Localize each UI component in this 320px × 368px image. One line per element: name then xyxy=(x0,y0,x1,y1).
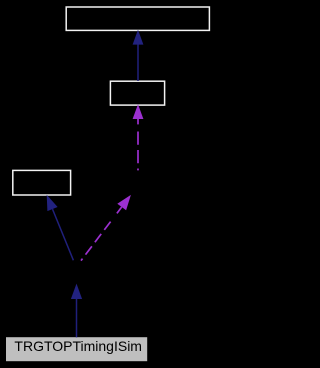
usage arrow D: junction up-right toward middle (dashed purple) xyxy=(81,195,131,261)
node box bottom TRGTOPTimingISim (current class, grey fill) xyxy=(6,337,147,361)
svg-text:TRGTOPTimingISim: TRGTOPTimingISim xyxy=(14,338,142,354)
node box left (class, text invisible) xyxy=(13,170,71,195)
inheritance arrow C: junction up-left to left box (solid navy) xyxy=(47,195,74,260)
usage arrow E: junction node up to middle box (dashed purple) xyxy=(133,104,144,170)
inheritance arrow A: middle box to top box (solid navy) xyxy=(133,30,144,81)
node box top (base class, text invisible) xyxy=(66,7,209,30)
inheritance arrow B: TRGTOPTimingISim up to junction node (solid navy) xyxy=(71,284,82,338)
node box middle (intermediate class, text invisible) xyxy=(110,81,164,105)
